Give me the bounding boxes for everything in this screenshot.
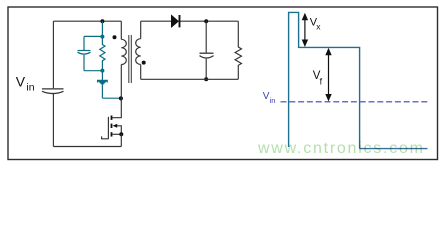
svg-text:x: x (316, 22, 321, 32)
wire left rail lower (52, 94, 54, 147)
transistor Q1 (MOSFET) (102, 98, 124, 146)
transformer T1 primary winding (121, 21, 126, 98)
channel bar middle (111, 124, 113, 128)
label Vin (waveform axis) (263, 91, 276, 105)
transformer T1 secondary winding (136, 21, 141, 79)
node output cap top (204, 19, 208, 23)
channel bar bottom (111, 132, 113, 136)
svg-text:V: V (16, 74, 26, 90)
wire source to rail (120, 134, 122, 146)
svg-text:in: in (26, 81, 34, 93)
outer border (frame) (8, 7, 438, 160)
waveform Vin dashed level line (281, 101, 429, 103)
resistor Rload (235, 21, 241, 79)
primary polarity dot (113, 35, 117, 39)
label vf (313, 70, 323, 86)
node snubber top (100, 35, 104, 39)
diode Dsn (clamp diode) (98, 71, 108, 99)
wire output top (181, 20, 239, 22)
transformer core (129, 35, 132, 83)
wire clamp feed (teal) (101, 21, 103, 36)
arrow Vf measure (325, 48, 331, 102)
diode D1 (output rectifier) (171, 15, 179, 27)
source lead (112, 133, 121, 135)
node output cap bottom (204, 77, 208, 81)
svg-text:f: f (320, 76, 323, 86)
gate lead (102, 136, 109, 138)
channel bar top (111, 116, 113, 120)
wire snubber bottom (84, 70, 102, 72)
gate bar (107, 117, 109, 139)
capacitor Cin (input bulk cap) (42, 89, 64, 94)
wire top rail (53, 20, 121, 22)
capacitor Cout (200, 21, 214, 79)
drain lead (112, 98, 121, 117)
body arrow (113, 124, 118, 128)
secondary polarity dot (142, 61, 146, 65)
waveform drain voltage trace (289, 12, 360, 148)
waveform zero level segment (360, 148, 428, 150)
svg-text:in: in (270, 96, 276, 105)
capacitor Csn (clamp cap) (78, 36, 91, 70)
label vx (310, 16, 321, 31)
wire left rail upper (52, 21, 54, 88)
arrow Vx measure (302, 13, 308, 47)
wire output bottom rail (141, 78, 239, 80)
node snubber bottom (100, 69, 104, 73)
wire snubber top (84, 35, 102, 37)
node top junction (100, 19, 104, 23)
wire bottom rail (53, 146, 121, 148)
wire clamp return (102, 97, 121, 99)
resistor Rsn (clamp resistor) (100, 37, 105, 71)
svg-text:www.cntronics.com: www.cntronics.com (257, 140, 425, 157)
node source junction (119, 132, 123, 136)
label Vin (16, 74, 35, 94)
wire secondary top (141, 20, 172, 22)
node drain junction (119, 96, 123, 100)
